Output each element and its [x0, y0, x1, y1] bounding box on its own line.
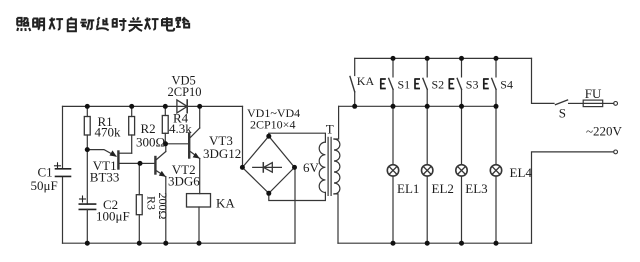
transistor VT3 (3DG12): [188, 134, 190, 158]
switch S: [556, 100, 568, 105]
junction VT1 B1/VT2 base/R3: [138, 161, 143, 166]
svg-text:S3: S3: [466, 77, 479, 91]
char 灯: [49, 18, 63, 30]
char 电: [162, 17, 174, 30]
wire: lamp bottom bus: [338, 242, 532, 244]
svg-text:S2: S2: [432, 77, 445, 91]
wire: left circuit bottom rail: [63, 242, 296, 244]
char 时: [113, 18, 127, 30]
terminal lower: [614, 150, 618, 154]
switch S4: [495, 58, 497, 77]
junction bridge + (left): [240, 165, 245, 170]
char 照: [17, 18, 30, 31]
wire: mains return: [532, 152, 614, 243]
char 灯: [145, 18, 159, 30]
resistor R4: [164, 106, 166, 115]
switch S1: [392, 58, 394, 77]
junction bridge AC bottom: [266, 191, 271, 196]
wire: right top bus: [355, 57, 532, 59]
resistor R2: [131, 106, 133, 116]
svg-text:3DG12: 3DG12: [203, 146, 241, 161]
svg-text:KA: KA: [357, 74, 375, 88]
svg-text:EL4: EL4: [510, 165, 533, 180]
resistor R3: [136, 195, 142, 215]
char 明: [33, 18, 44, 30]
junction EL3 bottom: [459, 241, 464, 246]
lamp EL2: [426, 106, 428, 164]
svg-text:3DG6: 3DG6: [168, 174, 200, 189]
transistor VT2 (3DG6): [154, 157, 156, 174]
wire transformer primary top to switch bus: [334, 106, 339, 139]
junction S1/EL1 node: [391, 104, 396, 109]
junction KA coil bottom: [197, 241, 202, 246]
svg-text:EL1: EL1: [397, 181, 419, 196]
junction R4/VT2 collector/VT3 base: [163, 141, 168, 146]
relay contact KA switch: [354, 58, 356, 75]
junction R2 top: [129, 104, 134, 109]
junction S3/EL3 node: [459, 104, 464, 109]
junction S1 top: [391, 56, 396, 61]
junction S2 top: [425, 56, 430, 61]
wire VT1 B1 node to VT2 base / R3: [140, 162, 154, 164]
svg-text:4.3k: 4.3k: [169, 121, 192, 136]
diode VD5: [177, 100, 187, 113]
junction C2 bottom: [85, 241, 90, 246]
junction S3 top: [459, 56, 464, 61]
wire bridge bottom to transformer secondary bottom: [269, 192, 326, 200]
svg-text:6V: 6V: [303, 160, 320, 175]
svg-text:200Ω: 200Ω: [156, 193, 170, 220]
svg-text:2CP10: 2CP10: [168, 85, 202, 99]
fuse FU: [583, 100, 603, 107]
svg-text:EL2: EL2: [432, 181, 454, 196]
wire: left border lower (C1 to bottom): [62, 177, 64, 243]
wire: switch lower bus: [339, 105, 496, 107]
svg-text:~220V: ~220V: [586, 123, 623, 138]
junction S2/EL2 node: [425, 104, 430, 109]
switch S3: [461, 58, 463, 77]
svg-text:S4: S4: [500, 77, 513, 91]
lamp EL3: [461, 106, 463, 164]
junction EL4 bottom: [494, 241, 499, 246]
junction VD5 cathode/VT3 collector: [197, 104, 202, 109]
char 路: [176, 17, 189, 27]
svg-text:BT33: BT33: [90, 170, 120, 185]
capacitor C1: [56, 169, 71, 177]
svg-text:EL3: EL3: [465, 181, 487, 196]
resistor R1: [86, 106, 88, 116]
wire R1 to C2: [86, 150, 88, 205]
switch operator glyphs: [380, 79, 386, 89]
wire: left border upper (to C1): [62, 106, 64, 168]
wire: top rail down to bridge +: [242, 106, 244, 167]
lamp EL1: [392, 106, 394, 164]
svg-text:T: T: [326, 122, 334, 137]
title 照明灯自动延时关灯电路 (hand drawn strokes): [17, 17, 189, 31]
wire bridge top to transformer secondary top: [269, 133, 326, 142]
wire node to VT3 base: [166, 143, 189, 145]
terminal upper: [614, 102, 618, 106]
junction S4/EL4 node: [494, 104, 499, 109]
wire transformer primary bottom to lamp bottom bus: [334, 194, 338, 243]
svg-text:100μF: 100μF: [96, 209, 130, 224]
junction KA contact bottom: [352, 104, 357, 109]
svg-text:KA: KA: [216, 196, 235, 211]
wire: mains feed top: [532, 58, 555, 103]
lamp EL4: [495, 106, 497, 164]
junction R4/VD5 anode: [163, 104, 168, 109]
junction EL1 bottom: [391, 241, 396, 246]
char 自: [68, 17, 76, 31]
char 延: [96, 17, 108, 30]
switch S2: [426, 58, 428, 77]
svg-text:S1: S1: [398, 77, 411, 91]
junction EL2 bottom: [425, 241, 430, 246]
capacitor C2: [79, 204, 95, 209]
junction VT2 emitter bottom: [163, 241, 168, 246]
svg-text:2CP10×4: 2CP10×4: [250, 118, 295, 132]
char 动: [80, 20, 94, 30]
junction R3 bottom: [137, 241, 142, 246]
bridge rectifier VD1-VD4: [242, 136, 294, 193]
transistor VT1 (BT33 UJT): [117, 152, 119, 169]
wire: left circuit top rail: [63, 105, 243, 107]
svg-text:S: S: [559, 105, 566, 120]
relay coil KA: [187, 194, 211, 207]
wire: bridge - down to bottom rail: [294, 167, 296, 243]
junction bridge - (right): [292, 165, 297, 170]
junction R1/C2/VT1 emitter: [85, 147, 90, 152]
svg-text:FU: FU: [585, 86, 602, 101]
label R3 rotated: [145, 196, 159, 210]
junction bridge AC top: [266, 134, 271, 139]
svg-text:50μF: 50μF: [31, 178, 58, 193]
junction R1 top: [85, 104, 90, 109]
junction S4 top: [494, 56, 499, 61]
svg-text:300Ω: 300Ω: [136, 135, 165, 150]
svg-text:470k: 470k: [95, 125, 122, 140]
char 关: [128, 17, 142, 31]
transformer T: [319, 137, 340, 195]
